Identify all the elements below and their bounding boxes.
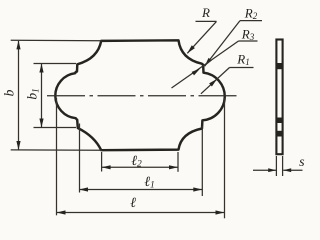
R1 leader shelf: [230, 67, 254, 69]
b1 dimension line: [41, 64, 43, 127]
svg-text:R1: R1: [236, 52, 249, 68]
svg-text:ℓ1: ℓ1: [144, 175, 155, 191]
R leader line: [187, 21, 216, 53]
b1 top extension line: [34, 63, 77, 65]
s dimension right segment: [283, 169, 302, 171]
b1 bottom extension line: [34, 127, 77, 129]
strip tick bar 3: [276, 131, 283, 137]
svg-text:R3: R3: [241, 27, 255, 43]
plate outline (front view): [55, 40, 224, 150]
svg-text:s: s: [299, 155, 305, 170]
R1 leader line: [201, 68, 230, 94]
R3 leader shelf: [239, 40, 258, 42]
s right extension line: [282, 156, 284, 176]
s left extension line: [275, 156, 277, 176]
l2 dimension line: [102, 166, 178, 168]
svg-text:b1: b1: [25, 88, 41, 99]
l1 right extension line: [201, 126, 203, 196]
l1 dimension line: [79, 189, 202, 191]
b dimension line: [18, 41, 20, 150]
R2 leader line: [205, 21, 240, 67]
strip tick bar 1: [276, 63, 283, 69]
strip tick bar 2: [276, 118, 283, 124]
l right extension line: [224, 98, 226, 218]
R2 leader shelf: [240, 20, 262, 22]
R3 leader line: [172, 41, 239, 88]
center axis dash-dot line: [47, 95, 237, 97]
l left extension line: [56, 98, 58, 215]
svg-text:R: R: [201, 5, 210, 20]
b bottom extension line: [11, 149, 102, 151]
svg-text:ℓ: ℓ: [130, 196, 136, 211]
svg-text:b: b: [2, 89, 17, 96]
l dimension line: [57, 212, 225, 214]
l1 left extension line: [79, 124, 81, 193]
l2 left extension line: [101, 152, 103, 172]
R leader shelf: [196, 20, 217, 22]
svg-text:R2: R2: [244, 6, 258, 22]
s dimension left segment: [253, 169, 276, 171]
b top extension line: [11, 39, 102, 42]
l2 right extension line: [177, 152, 179, 172]
svg-text:ℓ2: ℓ2: [131, 154, 142, 170]
side view strip: [276, 40, 282, 155]
